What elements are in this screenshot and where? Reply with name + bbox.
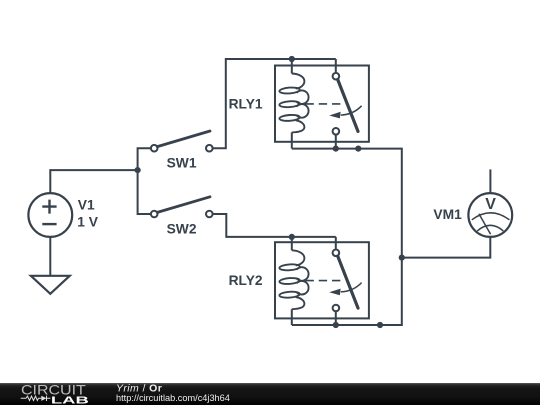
relay RLY2 top contact — [333, 250, 340, 257]
relay RLY2 dashed link — [306, 280, 341, 282]
junction dots rail1 — [333, 146, 339, 152]
footer bar — [0, 383, 540, 405]
voltage source V1 — [28, 193, 72, 237]
wire rail1 to right bus down to rail2 — [292, 149, 402, 325]
wire relay1 top pin — [335, 59, 337, 72]
relay RLY1 bottom contact — [333, 128, 340, 135]
svg-text:SW1: SW1 — [167, 156, 197, 171]
relay RLY2 bottom contact — [333, 305, 340, 312]
relay RLY1 box — [275, 66, 369, 142]
relay RLY1 coil — [279, 74, 308, 133]
wire coil1 feed — [291, 59, 293, 74]
ground — [31, 276, 70, 294]
relay RLY2 lever — [338, 256, 358, 308]
VM1 needle — [479, 214, 491, 235]
wire V1 bottom to ground — [49, 237, 51, 276]
svg-text:VM1: VM1 — [433, 207, 462, 222]
relay RLY2 box — [275, 242, 369, 318]
V1 plus sign — [42, 200, 56, 214]
wire VM1 top stub — [489, 169, 491, 193]
wire relay1 bottom pin — [335, 135, 337, 149]
relay RLY1 arrow — [341, 106, 362, 115]
svg-text:V: V — [485, 196, 496, 213]
junction dots rail2 — [333, 322, 339, 328]
wire relay2 top pin — [335, 237, 337, 249]
wire coil1 bottom — [291, 132, 293, 148]
wire VM1 bottom — [402, 237, 491, 258]
relay RLY2 coil — [279, 250, 308, 309]
relay RLY1 top contact — [333, 73, 340, 80]
wire coil2 bottom — [291, 309, 293, 325]
node A junction dot — [135, 167, 141, 173]
wire node up to SW1 — [138, 148, 151, 170]
switch SW1 — [151, 145, 158, 152]
CircuitLab logo squiggle — [21, 396, 51, 401]
wire coil2 feed — [291, 237, 293, 250]
node rail1 coil junction dot — [289, 56, 295, 62]
svg-text:V1: V1 — [78, 198, 95, 213]
wire node down to SW2 — [138, 170, 151, 214]
relay RLY1 dashed link — [306, 103, 341, 105]
relay RLY2 arrow — [341, 283, 362, 292]
wire relay2 bottom pin — [335, 312, 337, 325]
node VM1 junction dot — [399, 255, 405, 261]
VM1 meter arcs — [472, 213, 510, 220]
switch SW2 — [151, 211, 158, 218]
wire V1 top to node — [50, 170, 137, 193]
svg-text:RLY1: RLY1 — [229, 96, 263, 111]
voltmeter VM1 — [468, 193, 512, 237]
svg-text:SW2: SW2 — [167, 221, 197, 236]
V1 minus sign — [42, 223, 56, 225]
wire SW1 to relay RLY1 top rail — [213, 59, 336, 148]
relay RLY1 lever — [338, 80, 358, 132]
svg-text:LAB: LAB — [51, 395, 89, 405]
wire SW2 to relay RLY2 top rail — [213, 214, 336, 237]
svg-text:http://circuitlab.com/c4j3h64: http://circuitlab.com/c4j3h64 — [116, 393, 230, 403]
node rail2 coil junction dot — [289, 234, 295, 240]
svg-text:RLY2: RLY2 — [229, 273, 263, 288]
svg-text:1 V: 1 V — [77, 214, 99, 229]
